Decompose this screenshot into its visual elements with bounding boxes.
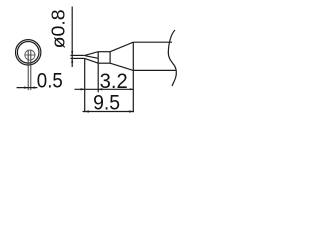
chisel edge left extension line (27, 50, 29, 90)
3.2 far right arrow (130, 88, 133, 90)
cylinder bottom line (98, 62, 110, 64)
3.2 dimension line (75, 88, 134, 90)
cylinder end vertical (109, 52, 111, 64)
small circle horizontal center line (25, 54, 36, 56)
extension line at wedge base (97, 63, 99, 92)
tip front view outer circle (16, 40, 41, 65)
9.5 dimension line (83, 111, 135, 113)
svg-text:ø0.8: ø0.8 (49, 9, 69, 48)
svg-text:0.5: 0.5 (37, 70, 63, 93)
wedge bottom line (85, 58, 99, 63)
chisel edge right extension line (30, 50, 32, 90)
barrel bottom line (133, 69, 175, 71)
wedge base vertical (97, 52, 99, 64)
0.5 right arrow (31, 86, 35, 88)
cylinder top line (98, 51, 110, 53)
svg-text:9.5: 9.5 (93, 90, 120, 115)
0.5 dimension line (17, 87, 38, 89)
3.2 right arrow (98, 88, 102, 90)
cone top line (110, 42, 133, 52)
chisel bottom profile line (71, 57, 85, 59)
dia 0.8 upper arrow (71, 51, 73, 55)
tip end face / dia 0.8 dimension line (71, 7, 73, 68)
9.5 right arrow (129, 110, 133, 112)
extension line at wedge start (84, 58, 86, 112)
9.5 left arrow (85, 110, 89, 112)
wedge top line (85, 52, 99, 56)
barrel top line (133, 41, 172, 43)
extension line at cone base (132, 70, 134, 112)
chisel top profile line (71, 54, 85, 56)
0.5 left arrow (24, 86, 28, 88)
wedge grind boundary line (85, 56, 98, 59)
dia 0.8 lower arrow (71, 59, 73, 63)
3.2 left arrow (81, 88, 85, 90)
tip front view inner ring (17, 42, 39, 64)
cone bottom line (110, 63, 133, 70)
break squiggle (168, 30, 176, 86)
cone base vertical (132, 42, 134, 70)
tip front view small circle (25, 50, 35, 60)
